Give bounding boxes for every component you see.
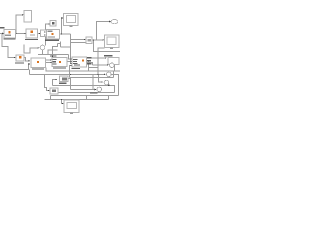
wire y54.5 long <box>38 54 69 56</box>
wire B4 out <box>60 33 71 35</box>
sum circle C4 <box>97 87 102 92</box>
wire to scope1 <box>62 18 63 34</box>
wire BR in3 <box>70 58 73 64</box>
wire y74.5 long <box>29 70 31 75</box>
unit delay block <box>60 76 69 82</box>
wire y50 x48 <box>48 50 58 55</box>
wire BM out <box>67 61 71 63</box>
sum circle C2 <box>107 72 112 77</box>
wire B1 to B2 <box>16 33 26 35</box>
block B2 <box>26 29 38 38</box>
scope2 right <box>105 35 120 49</box>
wire B1 feedback down-left <box>2 34 14 58</box>
wire UD in <box>53 80 56 86</box>
wire branch up to vertical block <box>16 15 22 34</box>
wire BM top feed <box>53 44 58 57</box>
square block mid <box>86 37 92 44</box>
wire y89.5 <box>71 89 94 91</box>
wire up to oval <box>97 22 110 41</box>
wire to C1 <box>93 64 108 66</box>
orange icons <box>9 31 85 64</box>
wire scope3 in <box>61 100 64 104</box>
wire v x50.5 <box>50 96 52 100</box>
sum circle mid <box>40 45 45 50</box>
scope1 top <box>64 14 79 28</box>
arrowheads <box>2 14 111 104</box>
small block bottom SB <box>50 88 58 94</box>
wire y69.5 left long <box>0 64 30 70</box>
wire vertical right x98 <box>97 58 99 75</box>
wire right edge y51.5 <box>94 40 121 52</box>
wire v x60.5 <box>60 44 62 48</box>
wire BL out2 <box>46 62 51 64</box>
wire y99.5 long <box>45 99 109 101</box>
wire y95.5 long <box>51 95 119 97</box>
wire BR out2 <box>87 61 89 72</box>
wire to square block <box>71 39 85 41</box>
wire SB2b in <box>45 75 49 91</box>
wire circle1 down <box>42 50 44 55</box>
wire UD out <box>68 79 71 90</box>
wire v x93 <box>92 75 94 90</box>
wire into circle1 <box>24 45 38 54</box>
wire y85.5 long <box>53 86 115 93</box>
sum circle C3 <box>104 80 109 85</box>
block B3 <box>41 30 47 37</box>
wire B2 to B3 <box>38 33 41 35</box>
wire corner y48 <box>98 48 105 58</box>
label smudges <box>0 22 113 94</box>
block B1 <box>4 30 16 39</box>
block BR <box>72 57 87 67</box>
sum circle C1 <box>110 63 115 68</box>
wire OrangeSmall out <box>24 58 29 62</box>
wire BL out <box>46 59 51 61</box>
wire y92.5 long <box>58 92 115 94</box>
wire y77.5 long <box>70 77 114 79</box>
scope3 bottom <box>64 100 79 114</box>
vertical block top-left <box>24 11 32 23</box>
wire y67.5 <box>89 67 99 69</box>
wire sq out to scope2 <box>92 39 103 41</box>
small block right SB2 <box>108 58 119 65</box>
small square top <box>50 21 56 27</box>
orange small block <box>16 55 24 61</box>
wire vertical x70.5 <box>70 34 72 58</box>
wire y71 long <box>46 68 120 72</box>
wire v x108.5 <box>108 96 110 100</box>
wire BR out1 to SB2 <box>87 57 106 59</box>
wire BR in1 <box>69 55 71 60</box>
wire v x98.5 to C3 <box>99 75 102 83</box>
wire y42.5 <box>71 42 87 44</box>
block BL <box>31 58 46 68</box>
wire BR in4 <box>70 66 71 78</box>
wire h y43.5 <box>58 42 61 44</box>
wire BR out3 <box>87 63 93 66</box>
wire h y47 <box>61 46 71 48</box>
wire v x113.5 <box>113 71 115 78</box>
junction dots <box>15 33 109 100</box>
block B4 <box>47 30 60 40</box>
wire C1 right down <box>114 63 116 72</box>
block BM <box>52 58 67 67</box>
wire circle1 top feed <box>45 37 47 46</box>
wire v x86.5 <box>86 96 88 100</box>
wire into C4 <box>94 89 96 91</box>
wire into B1 <box>0 33 3 35</box>
wire stub above B2 out <box>46 24 49 30</box>
out oval <box>111 20 118 24</box>
wire C2 right <box>112 75 119 96</box>
